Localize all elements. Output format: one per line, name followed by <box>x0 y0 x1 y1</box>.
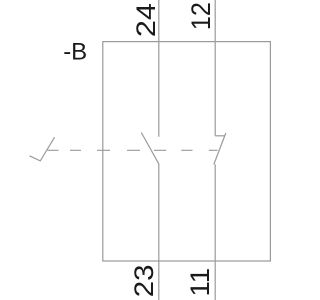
svg-text:-B: -B <box>63 39 87 66</box>
svg-text:23: 23 <box>129 265 159 298</box>
svg-text:12: 12 <box>186 2 216 30</box>
NC contact 11-12 fixed contact bar <box>215 135 225 137</box>
svg-text:24: 24 <box>131 3 161 37</box>
NO contact 23-24 moving blade <box>141 133 158 164</box>
wire: terminal 24 lead (top of NO contact) <box>158 0 160 137</box>
wire: terminal 11 lead (bottom of NC contact) <box>214 164 216 300</box>
mechanical linkage dashed line <box>48 149 218 151</box>
NC contact 11-12 moving blade <box>214 133 226 165</box>
svg-text:11: 11 <box>185 268 215 297</box>
enclosure box <box>103 42 271 261</box>
wire: terminal 23 lead (bottom of NO contact) <box>158 163 160 300</box>
wire: terminal 12 lead (top of NC contact) <box>214 0 216 136</box>
actuator lever symbol <box>30 137 55 161</box>
